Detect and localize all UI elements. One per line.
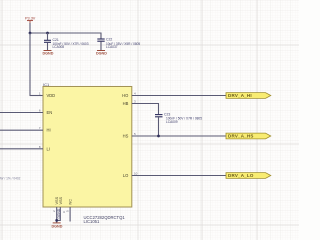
svg-text:LO: LO [123,173,128,178]
svg-text:VSS: VSS [59,196,63,204]
wire EN [0,112,43,114]
wire HS to port [132,135,226,137]
wire VSS pin 1 drop [56,207,58,223]
wire LO to port [132,175,226,177]
svg-text:DGND: DGND [57,208,61,218]
svg-text:DGND: DGND [52,224,63,228]
svg-text:DGND: DGND [96,51,107,55]
svg-text:IC1: IC1 [43,82,50,87]
wire HB [132,104,159,115]
svg-text:LCA009: LCA009 [166,120,178,124]
wire NC stub [69,207,71,222]
op-amp-like driver IC U1 body [43,82,132,224]
capacitor C21 [44,38,89,49]
svg-text:DRV_A_HS: DRV_A_HS [228,134,254,139]
svg-text:VDD: VDD [47,93,56,98]
wire P3.3V stem [29,23,31,33]
node C21 tap junction [46,32,49,35]
svg-text:LI: LI [47,146,50,151]
wire top rail [30,32,102,34]
wire HI [0,129,43,131]
port DRV_A_LO [226,173,271,179]
ground DGND under C21 [43,51,54,56]
wire VSS pin 2 drop [57,207,61,220]
svg-text:LCA037: LCA037 [106,45,118,49]
wire C22 drop [100,33,102,39]
svg-text:NC: NC [69,199,73,205]
svg-text:C22: C22 [106,37,112,41]
power flag P3.3V [25,16,36,23]
svg-text:HS: HS [123,134,129,139]
svg-text:EN: EN [47,110,53,115]
wire C22 bottom [100,41,102,50]
svg-text:LIC1051: LIC1051 [84,219,101,224]
node power junction [29,32,32,35]
node VSS junction [55,219,58,222]
svg-text:DRV_A_LO: DRV_A_LO [228,173,254,178]
svg-text:HI: HI [47,128,51,133]
svg-text:HO: HO [122,93,128,98]
capacitor C22 [97,37,140,49]
svg-text:P3.3V: P3.3V [25,16,36,20]
wire LI [0,148,43,150]
capacitor C23 [155,113,202,124]
wire VDD pin [30,95,44,97]
svg-text:10: 10 [134,172,138,176]
wire C21 bottom [47,43,49,51]
port DRV_A_HS [226,133,271,139]
svg-text:LCA008: LCA008 [53,45,65,49]
wire C23 bottom [158,117,160,136]
ground DGND under C22 [96,51,107,56]
svg-text:0MW / 1% / 0402: 0MW / 1% / 0402 [0,176,21,180]
port DRV_A_HI [226,93,271,99]
wire VDD vertical [29,33,31,96]
wire HO to port [132,95,226,97]
svg-text:DGND: DGND [43,51,54,55]
wire C21 top [47,33,49,40]
svg-text:DRV_A_HI: DRV_A_HI [228,93,252,98]
ground DGND bottom [52,223,63,228]
node C23/HS junction [157,135,160,138]
svg-text:HB: HB [123,101,129,106]
